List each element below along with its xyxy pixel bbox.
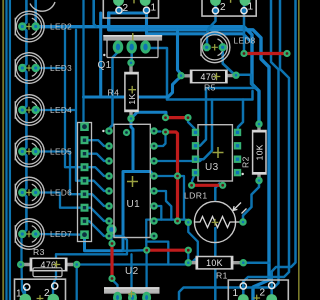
LED8 — [201, 32, 230, 63]
connector X2 — [202, 0, 256, 16]
wire R5 bracket — [238, 75, 256, 89]
wire bus v280 — [243, 0, 289, 299]
wire H2 to bracket — [167, 91, 253, 100]
via red LDR right — [219, 182, 226, 189]
via red upper right — [185, 114, 192, 121]
wire U1 pin8 riser — [154, 206, 161, 220]
LED5 — [15, 136, 44, 167]
wire net A branch to U3 — [196, 88, 256, 146]
svg-text:1: 1 — [248, 2, 254, 13]
LED4 — [15, 95, 44, 126]
svg-text:2: 2 — [44, 288, 50, 299]
wire R3 pad descender — [76, 265, 78, 300]
wire junction vertical — [145, 220, 147, 251]
wire net B — [109, 13, 269, 300]
wire header to U1 diagonals — [86, 140, 109, 146]
wire red LED8 net — [244, 52, 287, 55]
svg-text:R5: R5 — [204, 83, 216, 93]
svg-text:U2: U2 — [125, 266, 139, 277]
wire Q1 emitter to U3 — [146, 48, 167, 100]
resistor R3 — [24, 263, 73, 266]
wire big via link — [110, 231, 112, 243]
wire LED7 feed — [36, 233, 86, 236]
wire LED3 feed — [36, 67, 65, 69]
wire y254b — [56, 236, 127, 254]
wire left rail 2 — [9, 0, 11, 300]
wire red bottom — [147, 249, 189, 252]
regulator U2 — [104, 287, 160, 293]
LED D1 partial silkscreen — [30, 2, 55, 11]
pad X4-2 — [266, 294, 277, 300]
wire U1 pin6 riser — [154, 176, 184, 220]
wire U1 pin5 to U3 pin3 — [154, 159, 202, 161]
wire bus v295 — [272, 0, 296, 299]
wire U1 pin15 to via — [154, 134, 166, 147]
via red bottom right — [185, 247, 192, 254]
svg-text:Q1: Q1 — [98, 60, 112, 71]
wire U1 pin7 riser — [154, 191, 171, 220]
svg-text:LED7: LED7 — [50, 230, 72, 239]
header SV1 — [78, 123, 92, 242]
wire red under LDR — [192, 184, 223, 187]
pad X2-2 — [210, 0, 221, 6]
wire LED8 to R5 right — [223, 47, 236, 75]
transistor Q1 — [103, 35, 162, 41]
wire U3 pin8 feed — [238, 100, 244, 133]
svg-text:LDR1: LDR1 — [184, 191, 208, 201]
wire y254 — [53, 254, 56, 299]
LED7 — [15, 219, 44, 250]
pad X3-2 — [48, 294, 60, 300]
wire vertical x93 — [94, 0, 97, 27]
U3 origin cross — [213, 147, 224, 158]
resistor R4 — [129, 66, 132, 118]
wire X1 pad stub — [117, 2, 120, 13]
wire U2 left — [112, 280, 118, 297]
via red vert top — [109, 240, 116, 247]
resistor R5 — [184, 74, 233, 78]
timer U3 — [198, 125, 232, 181]
wire X2 pin2 to LED8 — [207, 2, 216, 44]
wire X3 pad1 stub — [24, 288, 26, 300]
svg-text:1: 1 — [151, 3, 157, 14]
wire U2 right up — [145, 252, 147, 297]
wire under U1 branch — [133, 172, 154, 177]
svg-text:2: 2 — [260, 288, 266, 299]
board edge left — [2, 0, 4, 300]
wire through LDR vertical lower — [214, 228, 217, 300]
wire chain to X3 — [22, 234, 26, 296]
svg-text:LED5: LED5 — [50, 148, 72, 157]
svg-text:LED8: LED8 — [234, 37, 256, 46]
svg-text:10K: 10K — [206, 258, 223, 268]
pad X1-2 — [113, 0, 124, 6]
svg-text:LED4: LED4 — [50, 106, 72, 115]
wire R3 to junction — [77, 263, 189, 265]
op-amp U1 — [114, 124, 150, 237]
via red bottom left — [143, 247, 150, 254]
connector X3 — [15, 279, 66, 300]
svg-text:10K: 10K — [254, 144, 264, 160]
svg-text:LED3: LED3 — [50, 64, 72, 73]
svg-text:2: 2 — [220, 2, 226, 13]
wire header pin1 feed — [82, 0, 84, 127]
wire U3 pin1 to via — [188, 119, 196, 132]
via red LED8 left — [241, 50, 248, 57]
wire left rail 1 — [5, 0, 7, 300]
svg-text:R4: R4 — [108, 88, 120, 98]
wire junction to LDR pad — [146, 220, 188, 223]
wire LED5 feed — [36, 152, 86, 195]
wire bus v271 — [179, 0, 279, 300]
pad X2-1 — [240, 0, 251, 6]
wire red L-shape — [166, 132, 178, 221]
wire junction to red via — [123, 249, 146, 252]
via red L bottom — [174, 218, 181, 225]
via large above red — [107, 225, 117, 235]
wire X1 pin1 to bus — [147, 11, 253, 43]
wire X1 internal — [109, 11, 147, 14]
via red L top — [162, 129, 169, 136]
connector X4 — [228, 280, 288, 300]
via red vert bottom — [109, 275, 116, 282]
wire R2 bottom to LDR — [243, 181, 259, 222]
connector X1 — [103, 0, 158, 18]
svg-text:2: 2 — [123, 3, 129, 14]
LED3 — [15, 53, 44, 84]
wire R5 left feed — [178, 30, 182, 76]
wire LDR left pad to R1 — [188, 222, 198, 261]
svg-text:U3: U3 — [205, 162, 219, 173]
LED6 — [15, 177, 44, 208]
resistor R2 — [257, 127, 260, 178]
via red LED8 right — [284, 50, 291, 57]
wire R4 under U1 to pin — [85, 119, 134, 251]
wire X2 pin1 down — [243, 2, 246, 54]
wire R1 right pad to bus — [243, 261, 269, 264]
wire LED6 feed — [36, 193, 86, 208]
wire R1 left pad — [187, 250, 189, 263]
wire v65 — [65, 27, 86, 168]
wire x99 vertical — [99, 13, 102, 97]
wire U3 pin4 to via — [192, 173, 196, 185]
wire U2 mid up — [130, 254, 132, 296]
svg-text:R1: R1 — [216, 271, 228, 281]
via red L mid — [174, 173, 181, 180]
svg-text:U1: U1 — [127, 199, 141, 210]
via red upper left — [162, 114, 169, 121]
wire red via-via upper — [166, 116, 189, 119]
pad X3-1 — [20, 294, 32, 300]
wire Q1 base to U1 pin1 — [110, 47, 119, 131]
wire LED4 feed — [36, 109, 76, 111]
pad X1-1 — [140, 0, 151, 6]
wire v76 — [76, 30, 86, 181]
via near U1 pin1 — [123, 129, 130, 136]
wire net A top horizontal — [36, 27, 259, 124]
LDR LDR1 — [194, 201, 235, 242]
LED2 — [15, 11, 44, 42]
pad X4-1 — [238, 294, 249, 300]
wire R4 pad to via — [131, 112, 166, 118]
svg-text:1: 1 — [16, 289, 22, 300]
svg-text:LED2: LED2 — [50, 23, 72, 32]
wire LED cathode chain — [22, 0, 26, 27]
U1 origin cross — [127, 176, 138, 187]
via red LDR left — [188, 182, 195, 189]
svg-text:R3: R3 — [33, 247, 45, 257]
wire red vertical bottom — [110, 244, 113, 279]
wire U1 pin16 stub — [154, 130, 161, 132]
svg-text:R2: R2 — [241, 156, 251, 168]
board edge right — [298, 0, 300, 300]
wire Q1 collector to R4 — [130, 49, 133, 63]
svg-text:LED6: LED6 — [50, 189, 72, 198]
wire y97 horizontal — [84, 77, 182, 98]
svg-text:1: 1 — [233, 288, 239, 299]
wire junction riser — [146, 242, 168, 265]
wire U3 pin3 descender — [196, 100, 212, 160]
resistor R1 — [192, 261, 241, 264]
wire through LDR vertical upper — [215, 184, 219, 200]
wire U1 pin8 stub — [109, 235, 123, 237]
svg-text:1K: 1K — [127, 93, 137, 104]
